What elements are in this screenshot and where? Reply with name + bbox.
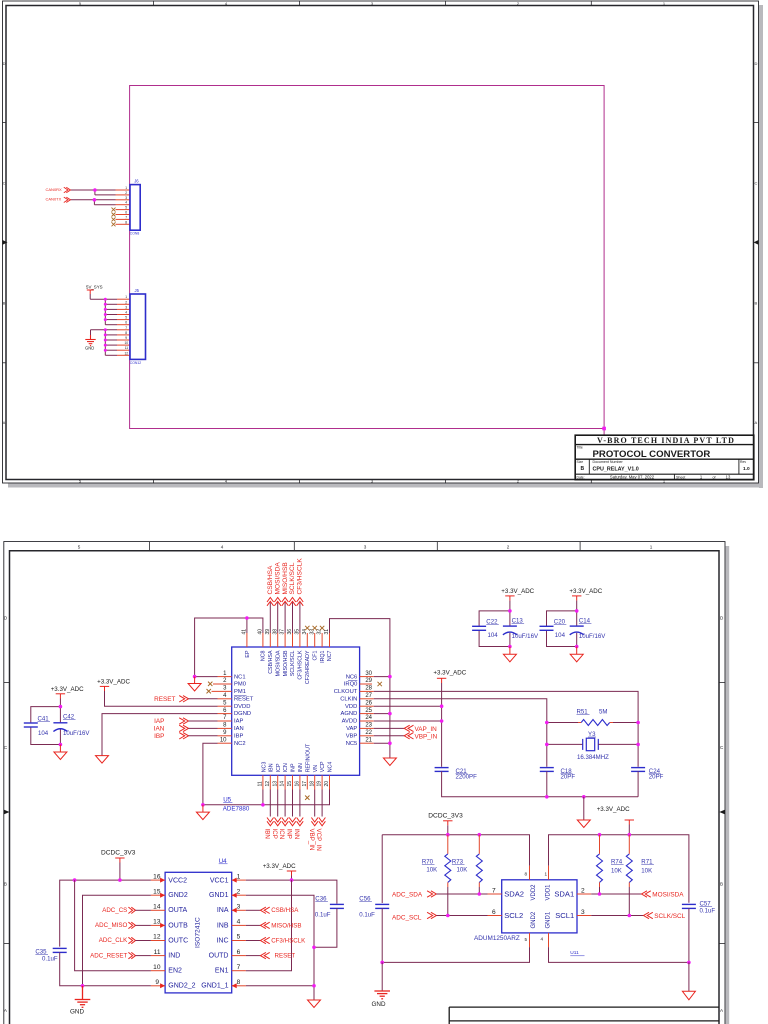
svg-text:ADC_CLK: ADC_CLK — [99, 937, 128, 944]
svg-text:EN2: EN2 — [168, 968, 182, 975]
svg-text:5: 5 — [525, 937, 528, 942]
U5 bottom pin names (rotated) — [261, 743, 333, 772]
svg-text:ICP: ICP — [276, 763, 282, 772]
svg-text:SCLK/SCL: SCLK/SCL — [289, 562, 296, 594]
svg-text:INN: INN — [293, 829, 300, 840]
svg-text:CLKIN: CLKIN — [340, 696, 357, 702]
capacitor C57 — [682, 904, 696, 908]
wire GND1_1 pin8 — [246, 985, 314, 987]
svg-text:1: 1 — [237, 873, 241, 880]
wire VDD pin26 to power column — [374, 705, 442, 707]
svg-text:IAP: IAP — [234, 719, 243, 725]
svg-text:GND2_2: GND2_2 — [168, 983, 195, 990]
svg-text:INN: INN — [298, 763, 304, 772]
ground symbol C56 — [374, 991, 390, 999]
junctions 5V_SYS bus — [104, 298, 107, 321]
capacitor C20 — [540, 626, 554, 630]
resistor R70 — [447, 835, 449, 854]
junction C56/GND2 — [380, 961, 384, 965]
wire EP/NC8/NC1 to ground net — [195, 618, 263, 677]
U11 vertical pin names VDD2/VDD1/GND2/GND1 — [531, 884, 552, 929]
junction EN2 tie at VCC2 — [73, 878, 77, 882]
U4 right pin names — [201, 878, 229, 990]
svg-text:6: 6 — [492, 909, 496, 916]
svg-text:B: B — [4, 882, 7, 887]
svg-text:2: 2 — [125, 300, 127, 304]
ground symbol DGND — [96, 756, 109, 764]
svg-text:SCLK/SCL: SCLK/SCL — [290, 650, 296, 676]
U5 bottom pin stubs 11-20 — [263, 775, 330, 789]
svg-text:1: 1 — [545, 872, 548, 877]
overline RESET pin4 — [234, 695, 247, 697]
svg-text:AVDD: AVDD — [342, 719, 358, 725]
svg-text:NC6: NC6 — [346, 675, 358, 681]
wire isolated ground stub — [688, 962, 690, 991]
wire DCDC_3V3 to VCC2 — [119, 863, 121, 881]
svg-text:CSB/HSA: CSB/HSA — [271, 907, 299, 914]
svg-text:+3.3V_ADC: +3.3V_ADC — [51, 686, 84, 693]
capacitor C42 (polarized) — [53, 723, 67, 732]
svg-text:8: 8 — [125, 331, 127, 335]
svg-text:J6: J6 — [134, 179, 139, 184]
wire CAN0RX to J6 pin1 — [71, 190, 116, 195]
U5 right pin numbers — [365, 671, 372, 744]
wire C56 bottom to GND2 rail — [381, 908, 383, 962]
svg-text:U4: U4 — [219, 858, 227, 865]
svg-text:9: 9 — [125, 336, 127, 340]
wire AGND pin25 to ground column — [374, 713, 390, 715]
port arrow pin35 CF3/HSCLK — [297, 598, 304, 606]
svg-text:CSB/HSA: CSB/HSA — [268, 650, 274, 674]
svg-text:2: 2 — [125, 191, 127, 195]
svg-text:10uF/16V: 10uF/16V — [512, 633, 539, 640]
svg-text:U11: U11 — [570, 950, 579, 956]
wire C18 to ground rail — [546, 771, 548, 796]
capacitor C41 — [24, 723, 38, 727]
svg-text:26: 26 — [365, 700, 372, 706]
junction Y3 right — [636, 743, 640, 747]
svg-text:34: 34 — [302, 629, 308, 635]
no-connect X J6 pin8 — [112, 222, 116, 226]
junction ground rail C18 — [545, 795, 549, 799]
svg-text:SDA2: SDA2 — [504, 890, 524, 899]
svg-text:EP: EP — [245, 650, 251, 658]
svg-text:MISO/HSB: MISO/HSB — [283, 650, 289, 676]
svg-text:5: 5 — [78, 545, 81, 550]
U5 right pin stubs 30-21 — [360, 677, 374, 744]
svg-text:ADC_MISO: ADC_MISO — [95, 922, 128, 929]
svg-text:1: 1 — [650, 545, 653, 550]
port arrow CAN0TX — [64, 197, 71, 202]
svg-text:10: 10 — [153, 964, 161, 971]
page 2 drop shadow — [726, 546, 730, 1024]
resistor R74 — [599, 835, 601, 854]
resistor R71 — [628, 835, 630, 854]
svg-text:INC: INC — [216, 937, 228, 944]
wire GND2 to GND2_2 tie — [83, 895, 151, 986]
svg-text:5: 5 — [125, 316, 127, 320]
wires C41/C42 loop — [31, 699, 61, 745]
svg-text:Sheet: Sheet — [676, 475, 685, 479]
junction Y3 left — [545, 743, 549, 747]
svg-text:10K: 10K — [426, 867, 437, 874]
ground symbol right of U5 — [383, 758, 396, 766]
U4 left pin stubs 16-9 — [151, 880, 165, 986]
wire VCC1 to EN1 tie — [246, 880, 292, 971]
svg-text:EN1: EN1 — [215, 968, 229, 975]
svg-text:D: D — [3, 61, 6, 66]
svg-text:NC2: NC2 — [234, 741, 246, 747]
svg-text:6: 6 — [237, 949, 241, 956]
svg-text:7: 7 — [237, 964, 241, 971]
connector J6 body — [130, 185, 140, 231]
svg-text:ADC_CS: ADC_CS — [102, 907, 127, 914]
port RESET into pin6 — [246, 955, 261, 957]
junction NC5 — [388, 741, 392, 745]
wire SDA1 to port — [591, 893, 641, 895]
port VAP_IN into pin23 — [374, 727, 404, 729]
right ground column — [389, 677, 391, 758]
svg-text:VCP: VCP — [320, 761, 326, 772]
U11 pin names — [504, 890, 524, 921]
U5 top pin numbers (rotated) — [242, 629, 331, 635]
svg-text:11: 11 — [154, 949, 161, 956]
svg-text:0.1uF: 0.1uF — [42, 955, 58, 962]
svg-text:VDD: VDD — [345, 704, 357, 710]
capacitor C21 — [435, 768, 449, 772]
svg-text:NC7: NC7 — [327, 650, 333, 661]
port arrow pin12 IBN — [267, 818, 274, 826]
svg-text:VDD1: VDD1 — [546, 884, 552, 901]
port arrow pin18 VBP_IN — [311, 818, 318, 826]
svg-text:J5: J5 — [135, 288, 140, 293]
U4 right pin stubs 1-8 — [232, 880, 246, 986]
svg-text:3: 3 — [364, 545, 367, 550]
ground symbol isolated (triangle) — [682, 991, 695, 1000]
U4 left pin names — [168, 878, 195, 990]
svg-text:of: of — [713, 475, 716, 479]
svg-text:33: 33 — [309, 629, 315, 635]
svg-text:CAN0RX: CAN0RX — [46, 187, 63, 192]
junction C42 top — [59, 705, 63, 709]
U5 bottom pin numbers (rotated) — [258, 781, 331, 787]
svg-text:16.384MHZ: 16.384MHZ — [577, 754, 609, 761]
svg-text:+3.3V_ADC: +3.3V_ADC — [569, 588, 602, 595]
port arrow pin39 CSB/HSA — [267, 598, 274, 606]
ground symbol C41/C42 — [54, 745, 67, 760]
port arrow pin15 INP — [289, 818, 296, 826]
wire NC2 pin10 down to ground rail — [203, 743, 218, 805]
svg-text:GND1: GND1 — [209, 892, 229, 899]
page 1 inner border — [6, 6, 754, 480]
svg-text:ADUM1250ARZ: ADUM1250ARZ — [474, 935, 520, 942]
svg-text:32: 32 — [317, 629, 323, 635]
junction VDD — [440, 704, 444, 708]
page 1 center arrows left/right — [3, 240, 8, 245]
svg-text:SCL1: SCL1 — [555, 911, 574, 920]
svg-text:20PF: 20PF — [649, 774, 664, 781]
svg-text:+3.3V_ADC: +3.3V_ADC — [501, 588, 534, 595]
page 2 zone ticks top — [150, 542, 581, 551]
U11 bottom pin stubs GND2/GND1 — [530, 933, 549, 947]
resistor R73 — [478, 835, 480, 854]
svg-text:AGND: AGND — [341, 711, 358, 717]
svg-text:B: B — [720, 882, 723, 887]
block corner stub to title block — [603, 429, 605, 436]
port SCLK/SCL — [644, 912, 653, 918]
svg-text:VCP_IN: VCP_IN — [315, 829, 322, 851]
wire VCC2 to EN2 tie — [75, 880, 151, 971]
crystal right node column — [637, 723, 639, 767]
port arrow pin16 INN — [297, 818, 304, 826]
svg-text:3: 3 — [125, 196, 127, 200]
capacitor C22 — [472, 626, 486, 630]
svg-text:20PF: 20PF — [561, 774, 576, 781]
page 1 drop shadow — [759, 5, 763, 488]
svg-text:Rev: Rev — [740, 460, 746, 464]
svg-text:5: 5 — [237, 934, 241, 941]
svg-text:OUTD: OUTD — [209, 953, 229, 960]
wires C22/C13 loop — [479, 601, 510, 647]
svg-text:16: 16 — [153, 873, 161, 880]
svg-text:0.1uF: 0.1uF — [359, 911, 375, 918]
left VDD2 rail — [382, 835, 529, 866]
junction AVDD — [440, 719, 444, 723]
svg-text:104: 104 — [555, 632, 566, 639]
svg-text:IAN: IAN — [154, 726, 165, 733]
svg-text:3: 3 — [581, 909, 585, 916]
svg-text:Date:: Date: — [577, 475, 585, 479]
wire +3.3V_ADC to DVDD — [105, 691, 218, 706]
svg-text:2200PF: 2200PF — [456, 774, 478, 781]
svg-text:10uF/16V: 10uF/16V — [63, 730, 90, 737]
wire C21 to crystal ground rail — [442, 771, 638, 796]
svg-text:B: B — [581, 466, 585, 472]
junction VCC1 — [290, 878, 294, 882]
ground rail under U5 — [203, 790, 330, 805]
svg-text:12: 12 — [124, 351, 128, 355]
J5 pin numbers — [124, 295, 128, 355]
svg-text:DCDC_3V3: DCDC_3V3 — [101, 850, 136, 857]
page 1 zone numbers bottom — [79, 479, 666, 484]
crystal Y3 — [547, 743, 583, 745]
port CF3/HSCLK into pin5 — [246, 940, 261, 942]
junction R73/SDA2 — [478, 892, 482, 896]
junction GND2_2 — [81, 984, 85, 988]
svg-text:IBN: IBN — [268, 763, 274, 772]
svg-text:10: 10 — [220, 737, 227, 743]
svg-text:14: 14 — [153, 904, 161, 911]
page 2 zone letters left — [4, 616, 8, 1014]
svg-text:ADC_RESET: ADC_RESET — [90, 952, 127, 959]
page 2 zone ticks left/right — [4, 683, 725, 944]
wire C56 ground stub — [381, 962, 383, 991]
svg-text:ICN: ICN — [278, 829, 285, 840]
wire C35 bottom to GND2_2 — [60, 952, 151, 985]
svg-text:C: C — [755, 181, 758, 186]
page 1 zone ticks left/right — [3, 123, 759, 363]
svg-text:IBP: IBP — [234, 733, 243, 739]
svg-text:DGND: DGND — [234, 711, 251, 717]
ground symbol C22/C13 — [503, 647, 516, 662]
page 1 zone numbers top — [79, 1, 666, 6]
U5 right pin names — [334, 675, 358, 747]
hierarchical block rectangle — [130, 86, 604, 429]
ground symbol left of U5 — [188, 677, 201, 691]
svg-text:2: 2 — [237, 888, 241, 895]
svg-text:13: 13 — [272, 781, 278, 787]
junction DCDC at VCC2 — [118, 878, 122, 882]
no-connect X pin17 — [305, 796, 309, 800]
svg-text:27: 27 — [365, 693, 372, 699]
overline IRQ0 pin29 — [348, 679, 357, 681]
svg-text:+3.3V_ADC: +3.3V_ADC — [97, 679, 130, 686]
port VBP_IN into pin22 — [374, 735, 404, 737]
svg-text:VBP_IN: VBP_IN — [308, 829, 315, 851]
junction CAN0RX — [93, 188, 97, 192]
wire C57 bottom to GND1 rail — [688, 908, 690, 962]
junction C13 top — [508, 609, 512, 613]
resistor R51 — [547, 722, 578, 724]
ground symbol U4 left — [75, 986, 91, 1008]
svg-text:CF3/HSCLK: CF3/HSCLK — [298, 650, 304, 680]
svg-text:28: 28 — [365, 686, 372, 692]
junction ground rail at NC3 — [261, 803, 265, 807]
wire CAN0TX to J6 pin3 — [71, 200, 116, 205]
wire +3.3V_ADC stub to right rail — [628, 825, 630, 835]
svg-text:CON8: CON8 — [130, 232, 140, 236]
wire DCDC_3V3 stub to left rail — [447, 825, 449, 834]
no-connect X pin29 IRQ0 — [378, 682, 382, 686]
wire GND to J5 pins 7-12 — [91, 330, 118, 356]
svg-text:MISO/HSB: MISO/HSB — [271, 922, 301, 929]
U5 left pin numbers — [220, 671, 227, 744]
no-connect X J6 pin7 — [112, 217, 116, 221]
svg-text:+3.3V_ADC: +3.3V_ADC — [263, 863, 296, 870]
svg-text:OUTB: OUTB — [168, 922, 188, 929]
page 2 title block (partial, cut at page bottom) — [449, 1007, 719, 1024]
svg-text:CON12: CON12 — [130, 361, 141, 365]
svg-text:INP: INP — [286, 829, 293, 839]
wire NC6 pin30 to ground column — [374, 676, 390, 678]
svg-text:VN: VN — [313, 765, 319, 773]
capacitor C56 — [381, 835, 383, 903]
svg-text:CSB/HSA: CSB/HSA — [267, 565, 274, 595]
wires C20/C14 loop — [547, 601, 577, 647]
svg-text:7: 7 — [125, 215, 127, 219]
svg-text:7: 7 — [492, 887, 496, 894]
svg-text:SCL2: SCL2 — [504, 911, 523, 920]
svg-text:0.1uF: 0.1uF — [315, 911, 331, 918]
svg-text:RESET: RESET — [234, 696, 254, 702]
wire ADC_SDA to pin7 — [436, 893, 487, 895]
crystal left node column — [546, 723, 548, 767]
svg-text:VAP_IN: VAP_IN — [415, 726, 438, 733]
wire C36 bottom to GND1 net — [314, 908, 337, 947]
port arrow pin36 SCLK/SCL — [289, 598, 296, 606]
svg-text:5: 5 — [125, 206, 127, 210]
right GND1 rail — [549, 947, 689, 962]
page 1 zone ticks bottom — [154, 480, 592, 484]
svg-text:D: D — [755, 61, 758, 66]
svg-text:14: 14 — [280, 781, 286, 787]
svg-text:MOSI/SDA: MOSI/SDA — [652, 891, 684, 898]
page 1 outer border — [3, 1, 759, 483]
junction R70/SCL2 — [446, 914, 450, 918]
svg-text:IAP: IAP — [154, 718, 164, 725]
svg-text:12: 12 — [265, 781, 271, 787]
svg-text:GND: GND — [70, 1009, 84, 1016]
svg-text:DCDC_3V3: DCDC_3V3 — [428, 813, 463, 820]
svg-text:9: 9 — [155, 979, 159, 986]
page 2 zone letters right — [720, 616, 724, 1014]
junction C42 bottom — [59, 743, 63, 747]
svg-text:VCC2: VCC2 — [168, 878, 187, 885]
port arrow pin19 VCP_IN — [319, 818, 326, 826]
page 2 outer border — [4, 542, 725, 1024]
wire 5V_SYS to J5 pin1 rail — [90, 294, 117, 325]
junction rail R73 — [478, 833, 482, 837]
IC U4 ISO7241C body — [165, 872, 232, 993]
svg-text:5V_SYS: 5V_SYS — [86, 285, 103, 290]
wire NC5 pin21 to ground column — [374, 742, 390, 744]
svg-text:22: 22 — [365, 730, 372, 736]
svg-text:NC3: NC3 — [261, 762, 267, 773]
ground symbol GND (J5) — [85, 335, 95, 346]
U11 pin numbers — [492, 887, 585, 916]
junction CAN0TX — [93, 198, 97, 202]
svg-text:Size: Size — [577, 460, 584, 464]
svg-text:VBP: VBP — [346, 733, 358, 739]
ground symbol C20/C14 — [570, 647, 583, 662]
U5 left pin names — [234, 675, 254, 747]
svg-text:11: 11 — [258, 781, 264, 786]
J5 pin stubs — [117, 299, 130, 355]
U11 top pin stubs VDD2/VDD1 — [530, 866, 549, 880]
svg-text:GND1_1: GND1_1 — [201, 983, 228, 990]
ground symbol under U5 — [196, 805, 209, 820]
block corner marker — [602, 427, 606, 431]
wires pins 18,19 down to ports — [315, 790, 322, 817]
svg-text:SDA1: SDA1 — [554, 890, 574, 899]
capacitor C36 — [330, 904, 344, 908]
wires pins 39-35 up to ports — [270, 603, 300, 634]
svg-text:RESET: RESET — [154, 696, 175, 703]
svg-text:10K: 10K — [457, 867, 468, 874]
svg-text:SCLK/SCL: SCLK/SCL — [654, 913, 685, 920]
wire RESET to pin4 — [189, 698, 218, 700]
page 2 inner border — [10, 551, 720, 1024]
no-connect X pin32 — [320, 626, 324, 630]
junction C36/GND1 — [312, 946, 316, 950]
svg-text:+3.3V_ADC: +3.3V_ADC — [433, 669, 466, 676]
svg-text:104: 104 — [38, 730, 49, 737]
U5 top pin stubs 41,40-31 — [247, 633, 330, 647]
wire AVDD pin24 to power column — [374, 720, 442, 722]
svg-text:ISO7241C: ISO7241C — [195, 917, 202, 948]
svg-text:1: 1 — [125, 295, 127, 299]
junction R71/SCL1 — [628, 914, 632, 918]
svg-text:Saturday, May 07, 2022: Saturday, May 07, 2022 — [610, 474, 655, 479]
svg-text:13: 13 — [153, 919, 161, 926]
junction ground rail at NC2 — [201, 803, 205, 807]
svg-text:CF3/HSCLK: CF3/HSCLK — [271, 937, 306, 944]
svg-text:IRQ0: IRQ0 — [344, 682, 358, 688]
J6 pin numbers — [125, 186, 127, 224]
capacitor C18 — [540, 768, 554, 772]
svg-text:CF2/HREADY: CF2/HREADY — [305, 650, 311, 684]
svg-text:GND2: GND2 — [168, 892, 188, 899]
